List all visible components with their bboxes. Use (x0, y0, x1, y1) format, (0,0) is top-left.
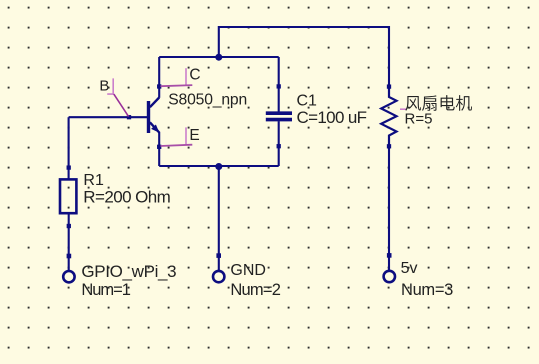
svg-text:S8050_npn: S8050_npn (168, 92, 247, 109)
svg-text:GND: GND (230, 262, 266, 279)
svg-text:R=200 Ohm: R=200 Ohm (83, 188, 171, 207)
svg-text:B: B (99, 77, 109, 94)
svg-text:C=100 uF: C=100 uF (297, 108, 368, 127)
svg-text:5v: 5v (401, 260, 418, 277)
svg-text:Num=1: Num=1 (81, 281, 130, 299)
svg-text:C1: C1 (297, 92, 318, 109)
svg-text:GPIO_wPi_3: GPIO_wPi_3 (81, 262, 176, 281)
svg-text:R=5: R=5 (405, 111, 433, 128)
svg-text:R1: R1 (83, 172, 104, 189)
svg-text:Num=2: Num=2 (230, 281, 281, 299)
svg-text:Num=3: Num=3 (401, 281, 453, 299)
svg-text:E: E (189, 127, 199, 144)
svg-text:C: C (189, 66, 200, 83)
